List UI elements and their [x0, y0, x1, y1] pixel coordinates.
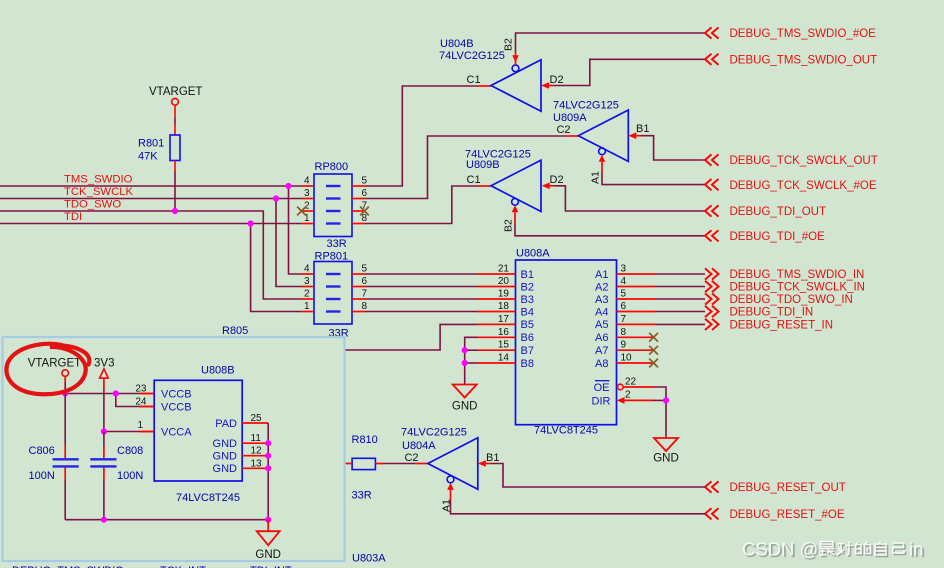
- port DEBUG_TMS_SWDIO_#OE: [705, 27, 719, 38]
- wire to U808A B5 from panel: [345, 324, 478, 350]
- port DEBUG_TDI_OUT: [705, 205, 719, 216]
- resistor R801 body: [170, 135, 180, 161]
- svg-text:C1: C1: [467, 174, 481, 186]
- svg-text:3: 3: [304, 188, 310, 199]
- no-connect X RP800 pin7: [360, 207, 369, 216]
- svg-text:74LVC8T245: 74LVC8T245: [176, 492, 240, 504]
- svg-text:PAD: PAD: [215, 418, 237, 430]
- capacitor C808 plates: [90, 459, 116, 466]
- ground symbol below U808A: [654, 438, 678, 451]
- svg-text:VCCA: VCCA: [161, 426, 192, 438]
- U808A OE pin with bubble: [618, 384, 624, 390]
- svg-text:7: 7: [621, 314, 627, 325]
- svg-text:B1: B1: [636, 123, 649, 135]
- wire U804B D2 to port: [554, 59, 706, 85]
- svg-text:A2: A2: [595, 281, 608, 293]
- wire R810 to U804A C2: [375, 463, 383, 465]
- svg-text:B6: B6: [521, 332, 534, 344]
- junction B8 gnd: [462, 360, 468, 366]
- junction R801-TDO_SWO: [172, 208, 178, 214]
- svg-text:15: 15: [498, 340, 510, 351]
- wire TDO_SWO horizontal + drop to RP801 pin2: [0, 211, 301, 299]
- wire U804B B2 to port: [516, 33, 706, 52]
- port DEBUG_RESET_#OE: [705, 508, 719, 519]
- svg-text:6: 6: [362, 188, 368, 199]
- svg-text:4: 4: [621, 276, 627, 287]
- U808B right pins 25,11,12,13: [242, 422, 268, 424]
- svg-text:33R: 33R: [327, 238, 347, 250]
- svg-text:R810: R810: [352, 434, 378, 446]
- svg-text:U808B: U808B: [201, 365, 235, 377]
- svg-text:3: 3: [304, 276, 310, 287]
- junction VTARGET (inset): [62, 390, 68, 396]
- svg-text:GND: GND: [213, 463, 238, 475]
- svg-text:C808: C808: [117, 445, 143, 457]
- svg-text:RP801: RP801: [315, 251, 349, 263]
- port DEBUG_TMS_SWDIO_IN: [705, 268, 719, 279]
- wires RP801 pins 5-8 to U808A B1-B4: [365, 273, 478, 275]
- capacitor C806 plates: [53, 459, 79, 466]
- svg-text:1: 1: [304, 301, 310, 312]
- wires U808A B6-B8 to GND: [465, 337, 478, 384]
- U808A DIR pin with arrow: [617, 397, 625, 404]
- svg-text:A6: A6: [595, 332, 608, 344]
- svg-text:C1: C1: [467, 74, 481, 86]
- svg-text:B5: B5: [521, 319, 534, 331]
- wire U809B B2 to port: [515, 223, 705, 236]
- svg-text:A4: A4: [595, 306, 608, 318]
- svg-text:TDI: TDI: [64, 211, 82, 223]
- U809B pin D2 with arrow: [542, 183, 550, 190]
- svg-text:DEBUG_TCK_SWCLK_OUT: DEBUG_TCK_SWCLK_OUT: [730, 155, 878, 167]
- svg-text:DEBUG_TMS_SWDIO_IN: DEBUG_TMS_SWDIO_IN: [730, 269, 865, 281]
- wire U809B D2 to port: [554, 186, 705, 211]
- svg-text:VTARGET: VTARGET: [28, 358, 81, 370]
- svg-text:U809B: U809B: [466, 159, 500, 171]
- svg-text:VCCB: VCCB: [161, 401, 192, 413]
- svg-text:DIR: DIR: [592, 396, 611, 408]
- svg-text:C2: C2: [404, 452, 418, 464]
- junction OE DIR: [663, 397, 669, 403]
- wire TCK drop to RP801 pin3: [276, 199, 301, 287]
- svg-text:16: 16: [498, 327, 510, 338]
- svg-text:6: 6: [621, 301, 627, 312]
- wire U804A A1 to port: [451, 500, 706, 514]
- IC U808A body: [516, 260, 617, 425]
- port DEBUG_TMS_SWDIO_OUT: [705, 54, 719, 65]
- svg-text:6: 6: [362, 276, 368, 287]
- wire TMS_SWDIO horizontal: [0, 185, 301, 187]
- power symbol VTARGET circle (inset): [62, 370, 69, 377]
- svg-text:C806: C806: [29, 445, 55, 457]
- op-amp buffer U804A body: [428, 438, 478, 489]
- port DEBUG_TDI_IN: [705, 306, 719, 317]
- svg-text:DEBUG_TCK_SWCLK_#OE: DEBUG_TCK_SWCLK_#OE: [730, 180, 877, 192]
- svg-text:A1: A1: [590, 171, 602, 184]
- U804B OE bubble: [512, 65, 519, 72]
- port DEBUG_TCK_SWCLK_IN: [705, 281, 719, 292]
- port DEBUG_TDO_SWO_IN: [705, 293, 719, 304]
- svg-text:B1: B1: [486, 452, 499, 464]
- wire RP800 pin5 to U804B C1: [365, 86, 478, 186]
- wire TCK_SWCLK horizontal: [0, 198, 301, 200]
- svg-text:B8: B8: [521, 358, 534, 370]
- resistor R810 body: [352, 458, 375, 469]
- no-connect X U808A A6: [649, 333, 658, 342]
- svg-text:B2: B2: [503, 219, 515, 232]
- wire VCCA pin1 (inset): [104, 431, 140, 433]
- svg-text:RP800: RP800: [315, 161, 349, 173]
- junction C808 rail (inset): [101, 517, 107, 523]
- inset panel frame: [3, 337, 345, 561]
- svg-text:4: 4: [304, 264, 310, 275]
- svg-text:21: 21: [498, 264, 510, 275]
- svg-text:24: 24: [135, 397, 147, 408]
- svg-text:B2: B2: [503, 38, 515, 51]
- svg-text:11: 11: [251, 433, 262, 444]
- svg-text:74LVC2G125: 74LVC2G125: [439, 50, 505, 62]
- svg-text:B4: B4: [521, 306, 534, 318]
- svg-text:DEBUG_TMS_SWDIO_OUT: DEBUG_TMS_SWDIO_OUT: [730, 55, 878, 67]
- U809A OE bubble: [599, 148, 606, 155]
- junction TDI drop: [248, 220, 254, 226]
- svg-text:100N: 100N: [117, 470, 143, 482]
- U804A OE bubble: [447, 476, 454, 483]
- svg-text:GND: GND: [653, 453, 679, 465]
- wire U809A A1 to port: [602, 172, 705, 185]
- junction GND11 (inset): [265, 440, 271, 446]
- svg-text:R801: R801: [138, 138, 164, 150]
- port DEBUG_TCK_SWCLK_OUT: [705, 154, 719, 165]
- svg-text:TCK_SWCLK: TCK_SWCLK: [64, 186, 134, 198]
- op-amp buffer U809B body: [491, 160, 541, 211]
- svg-text:B2: B2: [521, 281, 534, 293]
- svg-text:2: 2: [304, 201, 310, 212]
- svg-text:74LVC2G125: 74LVC2G125: [401, 427, 467, 439]
- svg-text:CSDN @: CSDN @: [742, 539, 818, 560]
- svg-text:A8: A8: [595, 358, 608, 370]
- svg-text:8: 8: [621, 327, 627, 338]
- svg-text:DEBUG_RESET_OUT: DEBUG_RESET_OUT: [730, 482, 846, 494]
- svg-text:U803A: U803A: [352, 553, 386, 565]
- svg-text:9: 9: [621, 340, 627, 351]
- svg-text:33R: 33R: [352, 490, 372, 502]
- svg-text:U804A: U804A: [402, 440, 436, 452]
- svg-text:DEBUG_RESET_IN: DEBUG_RESET_IN: [730, 320, 834, 332]
- junction GND12 (inset): [265, 453, 271, 459]
- junction VCCA (inset): [101, 428, 107, 434]
- svg-text:B7: B7: [521, 345, 534, 357]
- wire panel to R810: [345, 463, 352, 465]
- port DEBUG_RESET_OUT: [705, 481, 719, 492]
- svg-text:A7: A7: [595, 345, 608, 357]
- svg-text:A1: A1: [595, 269, 608, 281]
- svg-text:TDO_SWO: TDO_SWO: [64, 199, 121, 211]
- no-connect X U808A A7: [649, 346, 658, 355]
- IC U808B body: [154, 380, 242, 481]
- svg-text:DEBUG_TDI_OUT: DEBUG_TDI_OUT: [730, 206, 827, 218]
- svg-text:DEBUG_TDI_#OE: DEBUG_TDI_#OE: [730, 231, 826, 243]
- svg-text:8: 8: [362, 301, 368, 312]
- svg-text:D2: D2: [550, 74, 564, 86]
- svg-text:100N: 100N: [29, 470, 55, 482]
- svg-text:1: 1: [137, 420, 143, 431]
- svg-text:DEBUG_TDO_SWO_IN: DEBUG_TDO_SWO_IN: [730, 294, 853, 306]
- svg-text:5: 5: [362, 264, 368, 275]
- wire OE/DIR to GND: [653, 387, 666, 400]
- wire VTARGET to R801: [174, 105, 176, 118]
- svg-text:2: 2: [304, 289, 310, 300]
- svg-text:A5: A5: [595, 319, 608, 331]
- svg-text:10: 10: [621, 353, 633, 364]
- U804A pin B1 with arrow: [478, 460, 486, 467]
- U804B pin B2 with arrow: [515, 52, 517, 65]
- junction rail-GND (inset): [265, 517, 271, 523]
- wire RP800 pin6 to U809A C2: [365, 136, 566, 199]
- op-amp buffer U809A body: [578, 110, 628, 161]
- wire TDI drop to RP801 pin1: [251, 224, 301, 312]
- wire 3V3 down to VCCA (inset): [103, 378, 105, 390]
- svg-text:GND: GND: [213, 438, 238, 450]
- wire VTARGET to C806 (inset): [64, 394, 66, 446]
- svg-text:23: 23: [135, 384, 147, 395]
- svg-text:OE: OE: [594, 382, 610, 394]
- svg-text:TMS_SWDIO: TMS_SWDIO: [64, 174, 133, 186]
- U809B pin B2 with arrow: [512, 205, 519, 212]
- svg-text:DEBUG_TMS_SWDIO_#OE: DEBUG_TMS_SWDIO_#OE: [730, 28, 877, 40]
- svg-text:22: 22: [625, 377, 637, 388]
- junction pin24 drop (inset): [113, 390, 119, 396]
- svg-text:R805: R805: [222, 325, 248, 337]
- RP800 right pins 5,6,7,8: [352, 185, 365, 187]
- op-amp buffer U804B body: [491, 60, 541, 111]
- wire R801 to TDO_SWO: [174, 161, 176, 172]
- svg-text:20: 20: [498, 276, 510, 287]
- wire drop to VCCB pin24 (inset): [116, 394, 140, 407]
- resistor pack RP801 body: [314, 262, 352, 325]
- svg-text:4: 4: [304, 176, 310, 187]
- svg-text:7: 7: [362, 289, 368, 300]
- svg-text:47K: 47K: [138, 151, 158, 163]
- svg-text:VCCB: VCCB: [161, 388, 192, 400]
- junction B7 gnd: [462, 347, 468, 353]
- wire U804A B1 to port: [491, 464, 706, 488]
- watermark CSDN: [742, 539, 923, 560]
- power symbol VTARGET (circle): [172, 98, 179, 105]
- U808A left pins B1-B8: [478, 273, 516, 275]
- port DEBUG_RESET_IN: [705, 319, 719, 330]
- svg-text:74LVC8T245: 74LVC8T245: [534, 425, 598, 437]
- svg-text:19: 19: [498, 289, 510, 300]
- ground symbol left of U808A: [453, 385, 477, 398]
- port DEBUG_TDI_#OE: [705, 230, 719, 241]
- U804A pin A1 with arrow: [447, 483, 454, 490]
- svg-text:12: 12: [251, 446, 263, 457]
- U809A pin A1 with arrow: [599, 155, 606, 162]
- no-connect X U808A A8: [649, 359, 658, 368]
- wire rail to ground (inset): [267, 520, 269, 532]
- wire U809A B1 to port: [641, 136, 705, 160]
- RP800 left pins 4,3,2,1: [301, 185, 314, 187]
- RP801 right pins 5,6,7,8: [352, 273, 365, 275]
- svg-text:17: 17: [498, 314, 510, 325]
- svg-text:DEBUG_TDI_IN: DEBUG_TDI_IN: [730, 307, 814, 319]
- svg-text:B1: B1: [521, 269, 534, 281]
- svg-text:GND: GND: [213, 451, 238, 463]
- wire VTARGET down (inset): [64, 376, 66, 382]
- wire VTARGET rail to VCCB pin23 (inset): [65, 393, 140, 395]
- resistor pack RP800 body: [314, 174, 352, 237]
- RP801 left pins 4,3,2,1: [301, 273, 314, 275]
- svg-text:14: 14: [498, 353, 510, 364]
- svg-text:74LVC2G125: 74LVC2G125: [553, 100, 619, 112]
- svg-text:25: 25: [251, 413, 263, 424]
- svg-text:B3: B3: [521, 294, 534, 306]
- wire RP800 pin8 to U809B C1: [365, 186, 478, 224]
- svg-text:5: 5: [621, 289, 627, 300]
- U808B left pins 23,24,1: [140, 393, 154, 395]
- junction TMS drop: [285, 183, 291, 189]
- power symbol 3V3 triangle (inset): [100, 369, 109, 378]
- svg-text:3: 3: [621, 264, 627, 275]
- wire TMS drop to RP801 pin4: [289, 186, 302, 274]
- svg-text:2: 2: [625, 390, 631, 401]
- svg-text:GND: GND: [255, 549, 281, 561]
- wire 3V3 to C808 (inset): [103, 432, 105, 447]
- U804B pin D2 with arrow: [541, 82, 549, 89]
- svg-text:5: 5: [362, 176, 368, 187]
- svg-text:8: 8: [362, 213, 368, 224]
- wire TDI horizontal: [0, 223, 301, 225]
- U808A right pins A1-A8: [617, 273, 656, 275]
- wire PAD/GND vertical to rail (inset): [267, 423, 269, 520]
- svg-text:A3: A3: [595, 294, 608, 306]
- wire C806 to rail (inset): [64, 468, 66, 481]
- wire C808 to rail (inset): [103, 468, 105, 480]
- svg-text:U809A: U809A: [553, 112, 587, 124]
- ground rail (inset): [65, 519, 268, 521]
- svg-text:U808A: U808A: [516, 248, 550, 260]
- U809A pin B1 with arrow: [628, 132, 636, 139]
- svg-text:18: 18: [498, 301, 510, 312]
- ground symbol (inset): [257, 531, 280, 545]
- svg-text:13: 13: [251, 458, 263, 469]
- svg-text:DEBUG_RESET_#OE: DEBUG_RESET_#OE: [730, 509, 845, 521]
- svg-text:C2: C2: [556, 124, 570, 136]
- wires U808A A1-A5 to ports: [655, 273, 705, 275]
- svg-text:GND: GND: [452, 401, 478, 413]
- port DEBUG_TCK_SWCLK_#OE: [705, 179, 719, 190]
- svg-text:in: in: [909, 539, 923, 560]
- red annotation ellipse around VTARGET: [6, 344, 89, 395]
- no-connect X RP800 pin2: [297, 207, 306, 216]
- junction GND13 (inset): [265, 465, 271, 471]
- svg-text:VTARGET: VTARGET: [149, 86, 202, 98]
- svg-text:DEBUG_TCK_SWCLK_IN: DEBUG_TCK_SWCLK_IN: [730, 282, 865, 294]
- svg-text:D2: D2: [550, 174, 564, 186]
- junction TCK drop: [273, 195, 279, 201]
- U809B OE bubble: [512, 198, 519, 205]
- svg-text:U804B: U804B: [440, 38, 474, 50]
